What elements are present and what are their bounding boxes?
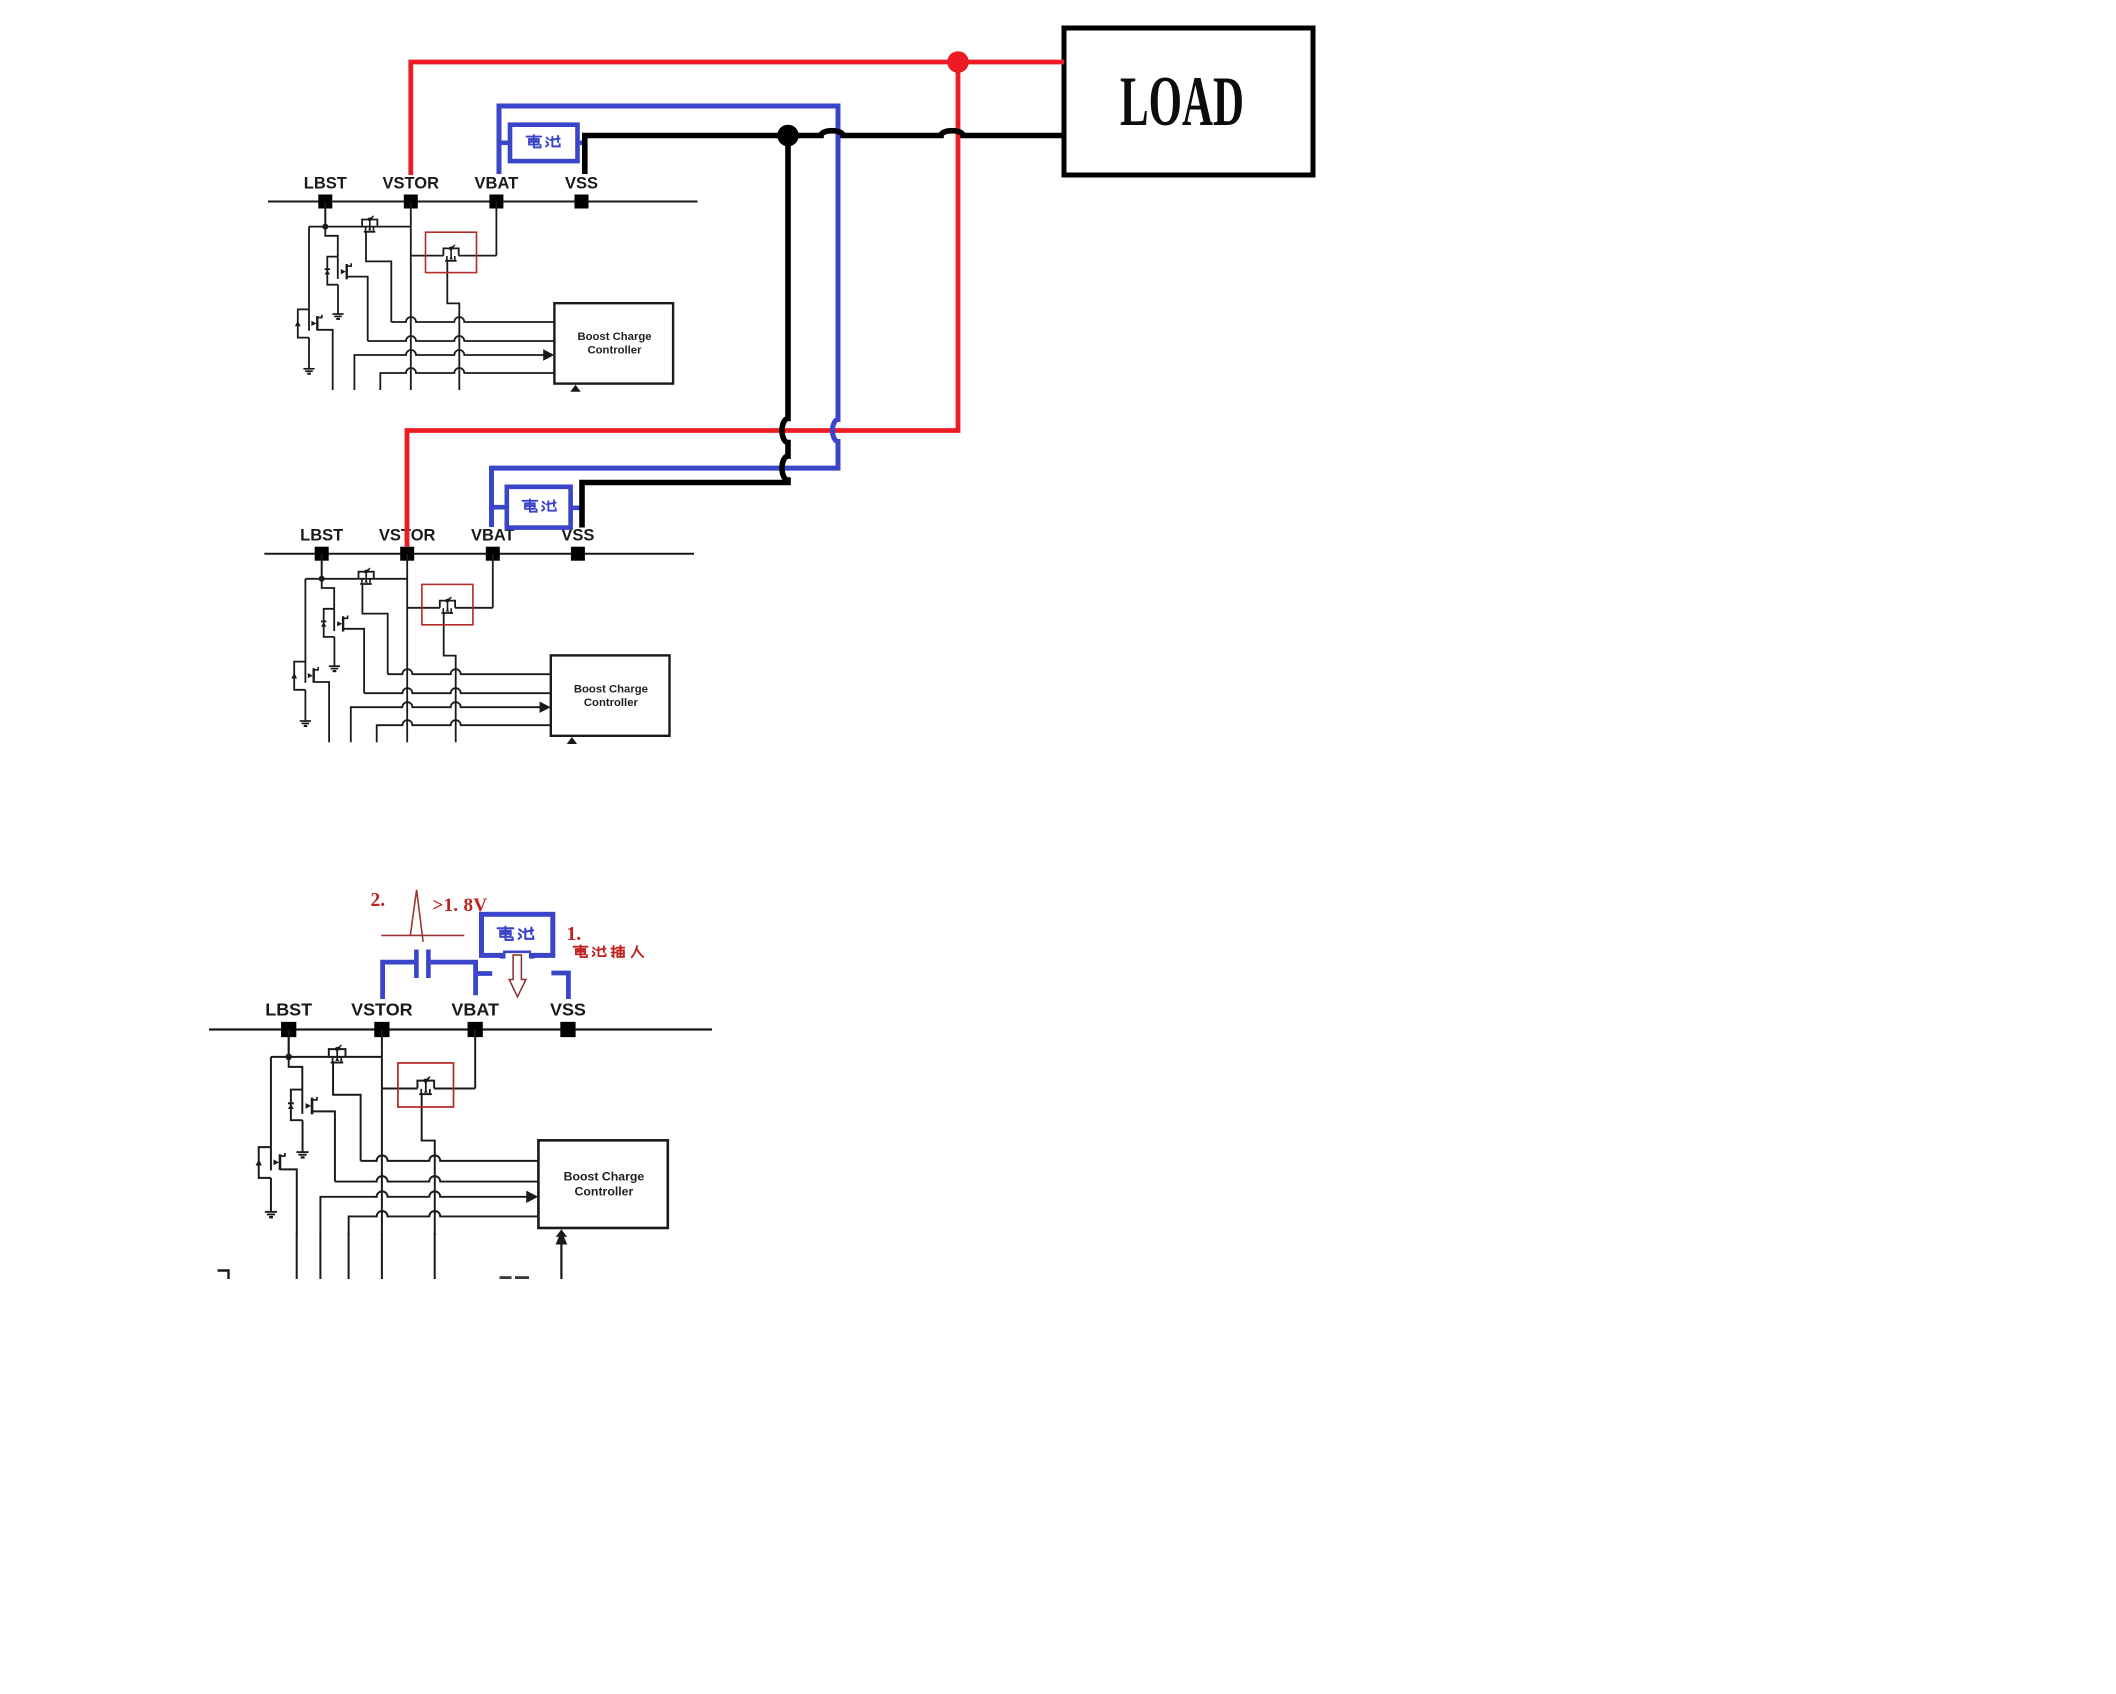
transistor Q3 body arrow (blk2)	[291, 673, 297, 679]
wire Q4 source from VSTOR (blk3)	[382, 1087, 418, 1089]
red wire junction down to VSTOR2	[407, 62, 958, 547]
wire VSTOR vertical (blk2)	[406, 554, 408, 743]
svg-text:2.: 2.	[371, 890, 386, 911]
diode on Q2 bracket (blk3)	[288, 1102, 294, 1109]
transistor Q4 gate bar (blk2)	[442, 612, 454, 614]
wire Q1 gate riser to line A (blk3)	[333, 1063, 361, 1161]
transistor Q2 gate bar (blk2)	[333, 609, 335, 631]
svg-text:LBST: LBST	[265, 999, 312, 1019]
bus line block2	[264, 553, 694, 555]
wire LBST stub down (blk3)	[288, 1029, 290, 1056]
black junction dot	[777, 125, 799, 147]
transistor Q3 channel bar (blk1)	[316, 316, 318, 330]
transistor Q4 body arrow (blk2)	[446, 609, 450, 612]
red highlight box around Q4 (blk3)	[398, 1063, 454, 1107]
controller input line B with hops (blk3)	[335, 1176, 539, 1181]
transistor Q3 body arrow (blk3)	[256, 1159, 262, 1165]
ground symbol under Q3 (blk3)	[265, 1212, 277, 1219]
wire Q3 source to ground (blk1)	[308, 338, 310, 369]
blue battery1 left stub	[497, 141, 511, 146]
wire Q2 drain to line B riser (blk3)	[312, 1111, 335, 1181]
wire VBAT vertical (blk3)	[474, 1029, 476, 1088]
wire gate jog from LBST node to Q2 (blk2)	[322, 579, 335, 609]
wire Q4 drain to VBAT (blk3)	[434, 1087, 475, 1089]
svg-text:Boost Charge: Boost Charge	[564, 1170, 645, 1184]
controller input line A with hops (blk3)	[361, 1155, 539, 1160]
block3 controller feedback arrow shaft	[560, 1242, 562, 1279]
feedback arrow under controller (blk1)	[570, 385, 580, 392]
transistor Q1 bulk dot (blk3)	[335, 1047, 339, 1051]
blue storage capacitor VSTOR3 lead	[383, 962, 415, 999]
wire H1 horizontal (blk1)	[309, 226, 411, 228]
transistor Q3 body arrow (blk1)	[295, 321, 301, 327]
feedback arrow under controller (blk3)	[556, 1229, 567, 1237]
transistor Q1 gate stubs (blk1)	[366, 227, 374, 232]
transistor Q2 gate bar (blk3)	[301, 1090, 303, 1114]
controller input line D with hops (blk1)	[380, 368, 554, 390]
transistor Q4 gate stubs (blk2)	[443, 608, 451, 613]
transistor Q1 center post (blk1)	[369, 219, 371, 230]
controller input line C with hops and arrow (blk2)	[351, 702, 541, 742]
blue corner wire above VSS3	[551, 973, 568, 999]
wire Q4 source from VSTOR (blk2)	[407, 607, 440, 609]
wire Q3 source to ground (blk3)	[270, 1178, 272, 1211]
pin pad VSS (blk3)	[560, 1022, 575, 1037]
wire Q4 source from VSTOR (blk1)	[411, 255, 444, 257]
wire Q2 source to ground (blk1)	[337, 285, 339, 314]
svg-text:LBST: LBST	[300, 527, 343, 545]
feedback arrow under controller (blk2)	[567, 737, 577, 744]
Boost Charge Controller box (blk3)	[538, 1140, 667, 1228]
transistor Q4 bracket (blk3)	[417, 1081, 434, 1089]
svg-text:Boost Charge: Boost Charge	[577, 331, 651, 343]
svg-text:VSTOR: VSTOR	[351, 999, 413, 1019]
pin pad VBAT (blk1)	[489, 195, 503, 209]
wire VSTOR vertical (blk1)	[410, 202, 412, 391]
wire left vertical to Q3 gate (blk2)	[304, 579, 306, 683]
wire Q4 drain to VBAT (blk2)	[455, 607, 493, 609]
Boost Charge Controller box (blk2)	[551, 655, 670, 735]
controller input line C with hops and arrow (blk3)	[320, 1191, 527, 1235]
blue capacitor right lead	[431, 962, 476, 995]
transistor Q2 channel bar (blk3)	[311, 1098, 313, 1115]
wire Q3 drain to bottom (blk2)	[314, 682, 329, 742]
transistor Q3 channel bar (blk2)	[312, 668, 314, 682]
ground symbol under Q3 (blk1)	[303, 369, 314, 375]
transistor Q4 bracket (blk1)	[443, 248, 458, 255]
corner mark of cropped next figure	[218, 1271, 229, 1280]
svg-text:Controller: Controller	[584, 697, 639, 709]
transistor Q2 bracket (blk2)	[324, 609, 335, 637]
transistor Q3 gate arrow (blk2)	[308, 673, 313, 678]
svg-text:>1. 8V: >1. 8V	[433, 895, 488, 916]
wire VBAT vertical (blk1)	[495, 202, 497, 256]
transistor Q3 channel bar (blk3)	[279, 1154, 281, 1170]
cropped partial text fragments	[500, 1276, 512, 1279]
capacitor plate left	[414, 950, 419, 979]
red wire VSTOR1 to LOAD	[411, 62, 1064, 175]
pin pad VSTOR (blk1)	[404, 195, 418, 209]
transistor Q4 bulk dot (blk3)	[424, 1079, 428, 1083]
transistor Q4 center post (blk3)	[425, 1080, 427, 1092]
diode on Q2 bracket (blk1)	[325, 268, 330, 274]
battery3 box (floating)	[482, 914, 553, 955]
transistor Q3 top stub (blk2)	[314, 667, 319, 670]
transistor Q1 bulk dot (blk1)	[368, 218, 372, 222]
svg-text:VSS: VSS	[565, 175, 598, 193]
wire H1 horizontal (blk2)	[305, 578, 407, 580]
transistor Q4 top arrow (blk3)	[427, 1077, 430, 1080]
battery3 bottom notch	[506, 953, 530, 958]
transistor Q2 channel bar (blk2)	[342, 616, 344, 631]
svg-text:Boost Charge: Boost Charge	[574, 683, 648, 695]
diode on Q2 bracket (blk2)	[321, 621, 326, 627]
transistor Q4 gate bar (blk3)	[419, 1093, 432, 1095]
wire Q3 drain to bottom (blk1)	[317, 330, 332, 390]
transistor Q1 body arrow (blk2)	[364, 580, 368, 583]
transistor Q3 top stub (blk3)	[280, 1153, 285, 1156]
wire H1 horizontal (blk3)	[271, 1056, 382, 1058]
wire gate jog from LBST node to Q2 (blk1)	[325, 227, 338, 257]
controller input line B with hops (blk1)	[368, 336, 555, 341]
controller input line A with hops (blk2)	[388, 669, 551, 674]
controller input line D with hops (blk2)	[377, 720, 551, 742]
transistor Q1 center post (blk3)	[336, 1048, 338, 1059]
capacitor plate right	[426, 950, 431, 979]
transistor Q1 gate bar (blk1)	[364, 231, 376, 233]
transistor Q2 gate arrow (blk2)	[337, 621, 342, 626]
transistor Q2 bracket (blk1)	[327, 257, 338, 285]
transistor Q2 bracket (blk3)	[291, 1090, 303, 1121]
svg-text:VSTOR: VSTOR	[383, 175, 440, 193]
transistor Q3 top stub (blk1)	[317, 315, 322, 318]
wire Q1 gate riser to line A (blk1)	[366, 232, 391, 322]
blue capacitor side stub	[476, 971, 493, 976]
red highlight box around Q4 (blk1)	[426, 232, 477, 272]
bus line block3	[209, 1028, 712, 1030]
blue battery2 right stub	[569, 505, 583, 510]
transistor Q2 top stub (blk1)	[347, 263, 352, 266]
wire left vertical to Q3 gate (blk3)	[270, 1057, 272, 1170]
hollow insertion arrow	[509, 955, 526, 997]
battery2 box	[507, 487, 571, 528]
wire Q2 source to ground (blk3)	[302, 1120, 304, 1151]
wire left vertical to Q3 gate (blk1)	[308, 227, 310, 331]
node LBST junction dot (blk3)	[285, 1054, 292, 1061]
transistor Q2 gate bar (blk1)	[337, 257, 339, 279]
transistor Q4 body arrow (blk1)	[449, 256, 453, 259]
transistor Q1 gate bar (blk3)	[331, 1062, 344, 1064]
controller input line C with hops and arrow (blk1)	[354, 350, 544, 390]
transistor Q3 gate arrow (blk1)	[311, 321, 316, 326]
battery1 box	[510, 125, 578, 161]
battery1 label 電池	[527, 135, 542, 147]
wire Q2 source to ground (blk2)	[333, 637, 335, 666]
controller input line B with hops (blk2)	[364, 688, 551, 693]
svg-text:VBAT: VBAT	[451, 999, 499, 1019]
ground symbol under Q3 (blk2)	[300, 721, 311, 727]
pin pad VBAT (blk3)	[468, 1022, 483, 1037]
LOAD box	[1064, 28, 1313, 175]
transistor Q4 bulk dot (blk1)	[449, 247, 453, 251]
transistor Q4 bulk dot (blk2)	[445, 599, 449, 603]
transistor Q1 gate stubs (blk3)	[333, 1057, 342, 1062]
annotation spike waveform	[381, 890, 464, 942]
wire Q2 drain to line B riser (blk1)	[347, 277, 368, 341]
wire gate jog from LBST node to Q2 (blk3)	[289, 1057, 303, 1090]
ground symbol under Q2 (blk2)	[329, 666, 340, 672]
pin pad LBST (blk2)	[315, 547, 329, 561]
block3 vertical wire extensions	[297, 1233, 435, 1279]
Boost Charge Controller box (blk1)	[554, 303, 673, 383]
pin pad VSTOR (blk3)	[374, 1022, 389, 1037]
bus line block1	[268, 201, 698, 203]
transistor Q3 bracket (blk1)	[298, 309, 309, 337]
wire VSTOR vertical (blk3)	[381, 1029, 383, 1234]
controller input line A with hops (blk1)	[391, 317, 554, 322]
pin pad VSTOR (blk2)	[400, 547, 414, 561]
wire Q4 gate riser down (blk3)	[422, 1094, 435, 1235]
transistor Q4 center post (blk1)	[450, 248, 452, 259]
transistor Q4 bracket (blk2)	[440, 601, 455, 608]
ground symbol under Q2 (blk3)	[296, 1152, 308, 1159]
transistor Q1 bracket (blk2)	[359, 572, 374, 579]
pin pad VBAT (blk2)	[486, 547, 500, 561]
node LBST junction dot (blk1)	[322, 224, 328, 230]
blue battery2 left stub	[490, 505, 509, 510]
transistor Q3 bracket (blk2)	[294, 662, 305, 690]
pin pad LBST (blk3)	[281, 1022, 296, 1037]
transistor Q1 bracket (blk3)	[329, 1049, 346, 1057]
transistor Q1 center post (blk2)	[365, 571, 367, 582]
blue wire battery1 loop to battery2 loop	[492, 106, 839, 527]
transistor Q1 bracket (blk1)	[362, 220, 377, 227]
transistor Q1 gate stubs (blk2)	[362, 579, 370, 584]
transistor Q1 bulk dot (blk2)	[364, 570, 368, 574]
annotation 電池插入	[574, 945, 644, 957]
transistor Q4 gate stubs (blk3)	[421, 1089, 430, 1094]
wire LBST stub down (blk1)	[324, 202, 326, 227]
transistor Q4 top arrow (blk1)	[452, 245, 455, 248]
transistor Q1 top arrow (blk1)	[371, 216, 374, 219]
transistor Q2 top stub (blk3)	[312, 1097, 317, 1100]
node LBST junction dot (blk2)	[319, 576, 325, 582]
transistor Q1 body arrow (blk3)	[335, 1058, 339, 1061]
transistor Q4 body arrow (blk3)	[424, 1089, 428, 1092]
pin pad VSS (blk2)	[571, 547, 585, 561]
svg-text:VSS: VSS	[550, 999, 586, 1019]
pin pad LBST (blk1)	[318, 195, 332, 209]
transistor Q4 center post (blk2)	[447, 600, 449, 611]
svg-text:Controller: Controller	[588, 345, 643, 357]
red highlight box around Q4 (blk2)	[422, 584, 473, 624]
wire LBST stub down (blk2)	[321, 554, 323, 579]
ground symbol under Q2 (blk1)	[332, 314, 343, 320]
svg-text:VBAT: VBAT	[475, 175, 519, 193]
wire Q2 drain to line B riser (blk2)	[343, 629, 364, 693]
transistor Q1 top arrow (blk2)	[367, 568, 370, 571]
black wire junction down to battery2 with hops	[582, 136, 788, 528]
transistor Q2 top stub (blk2)	[343, 616, 348, 619]
red junction dot	[947, 51, 969, 73]
svg-text:1.: 1.	[567, 924, 582, 945]
transistor Q1 top arrow (blk3)	[338, 1045, 341, 1048]
transistor Q3 gate arrow (blk3)	[274, 1160, 279, 1166]
pin pad VSS (blk1)	[575, 195, 589, 209]
svg-text:LOAD: LOAD	[1120, 63, 1244, 141]
transistor Q1 gate bar (blk2)	[360, 583, 372, 585]
black wire VSS1 to LOAD with hops	[585, 131, 1064, 174]
wire Q3 drain to bottom (blk3)	[280, 1169, 297, 1235]
controller input line D with hops (blk3)	[349, 1211, 539, 1235]
svg-text:Controller: Controller	[575, 1184, 634, 1198]
blue battery1 right stub	[576, 141, 585, 146]
transistor Q1 body arrow (blk1)	[368, 227, 372, 230]
transistor Q3 bracket (blk3)	[259, 1147, 271, 1178]
transistor Q4 gate bar (blk1)	[445, 260, 457, 262]
transistor Q2 channel bar (blk1)	[346, 264, 348, 279]
transistor Q4 top arrow (blk2)	[449, 597, 452, 600]
wire Q4 gate riser down (blk1)	[447, 261, 459, 390]
svg-text:LBST: LBST	[304, 175, 347, 193]
wire Q4 gate riser down (blk2)	[444, 613, 456, 742]
transistor Q2 gate arrow (blk1)	[341, 269, 346, 274]
transistor Q4 gate stubs (blk1)	[447, 256, 455, 261]
wire Q1 gate riser to line A (blk2)	[362, 584, 387, 674]
transistor Q2 gate arrow (blk3)	[306, 1103, 311, 1109]
wire Q4 drain to VBAT (blk1)	[459, 255, 497, 257]
battery2 label 電池	[523, 499, 538, 511]
wire Q3 source to ground (blk2)	[304, 690, 306, 721]
battery3 label 電池	[498, 927, 514, 940]
wire VBAT vertical (blk2)	[492, 554, 494, 608]
